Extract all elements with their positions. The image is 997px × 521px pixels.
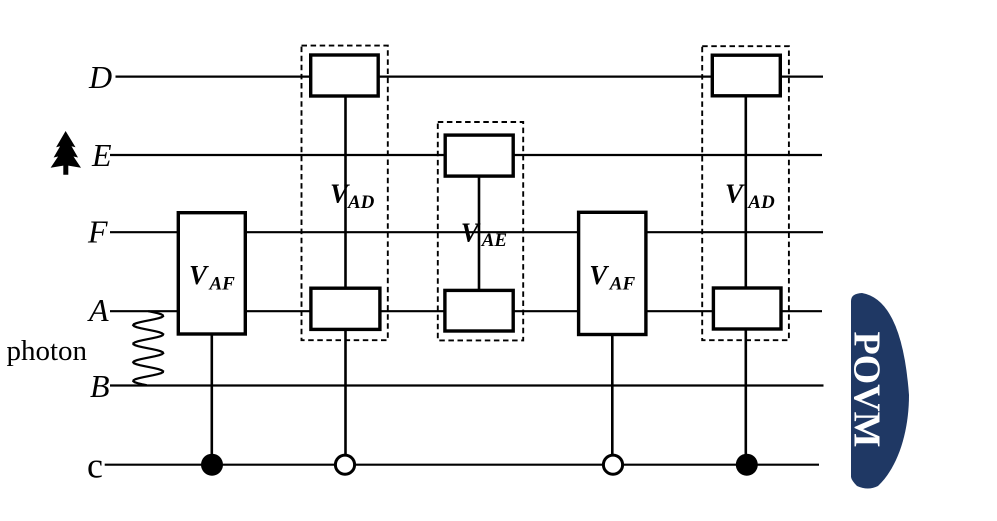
- gate box V_AF (second) spanning F and A: [579, 212, 646, 334]
- dashed group box V_AD (first): [302, 46, 388, 341]
- svg-text:B: B: [90, 368, 110, 404]
- tree icon next to E: [51, 131, 81, 175]
- wire A: [110, 310, 822, 312]
- photon squiggle between A and B: [133, 311, 163, 385]
- filled control dot (V_AD second) on c: [736, 454, 758, 476]
- svg-text:V: V: [330, 179, 350, 209]
- stem of gate V_AF (first) down to control dot: [211, 330, 214, 465]
- wire c: [105, 464, 819, 466]
- open control circle (V_AF second) on c: [603, 455, 622, 474]
- stem of gate V_AE between boxes: [478, 173, 481, 292]
- gate box V_AF (first) spanning F and A: [178, 213, 245, 334]
- dashed group box V_AD (second): [702, 46, 789, 340]
- svg-text:D: D: [88, 59, 112, 95]
- stem of gate V_AD (second), between boxes: [744, 94, 747, 290]
- svg-text:A: A: [87, 292, 109, 328]
- POVM measurement lens: [851, 293, 909, 489]
- filled control dot (V_AF first) on c: [201, 454, 223, 476]
- wire B: [110, 384, 824, 386]
- svg-text:V: V: [189, 260, 209, 290]
- wire D: [116, 75, 824, 77]
- V_AD (second) box on A: [713, 288, 781, 329]
- svg-text:V: V: [589, 260, 609, 290]
- dashed group box V_AE: [438, 122, 523, 340]
- stem of gate V_AD (second), below to control dot: [744, 327, 747, 465]
- stem of gate V_AF (second) down to open control: [611, 330, 614, 455]
- svg-text:F: F: [87, 214, 108, 250]
- svg-text:AF: AF: [209, 274, 236, 295]
- V_AE box on E: [445, 135, 513, 176]
- V_AE box on A: [445, 290, 513, 331]
- V_AD (first) box on A: [311, 288, 380, 329]
- svg-text:V: V: [461, 217, 481, 247]
- svg-text:AD: AD: [347, 192, 375, 213]
- V_AD (first) box on D: [311, 55, 379, 96]
- stem of gate V_AD (first), below to open control: [344, 327, 347, 455]
- svg-text:POVM: POVM: [846, 331, 888, 447]
- wire E: [110, 154, 822, 156]
- svg-text:photon: photon: [7, 335, 88, 367]
- svg-text:AF: AF: [609, 274, 636, 295]
- stem of gate V_AD (first), between boxes: [344, 94, 347, 290]
- svg-text:E: E: [91, 137, 112, 173]
- svg-text:V: V: [725, 179, 745, 209]
- svg-text:c: c: [87, 445, 103, 485]
- V_AD (second) box on D: [712, 55, 780, 96]
- svg-text:AD: AD: [747, 192, 775, 213]
- wire F: [110, 231, 823, 233]
- open control circle (V_AD first) on c: [335, 455, 354, 474]
- svg-text:AE: AE: [481, 230, 507, 251]
